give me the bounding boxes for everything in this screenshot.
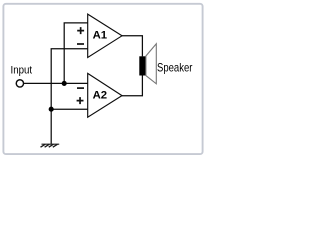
speaker cone [146, 44, 156, 84]
op-amp A1 (triangle) [88, 14, 122, 57]
ground [41, 144, 60, 147]
junction dot: ground rail to A2 non-inverting branch [49, 107, 54, 112]
svg-text:Input: Input [11, 64, 33, 76]
junction dot: input rail to A1 branch [62, 81, 67, 86]
wire: A2 non-inverting input from ground rail [51, 108, 87, 110]
A2 pin label - (inverting input) [77, 87, 84, 89]
A1 pin label + (non-inverting input) [77, 27, 84, 34]
svg-text:A2: A2 [93, 90, 108, 102]
wire: input rail from input terminal to A2 inverting input [24, 82, 88, 84]
wire: A2 output to speaker bottom [122, 76, 142, 96]
wire: branch up from input rail to A1 non-inverting input [64, 23, 87, 84]
A1 pin label - (inverting input) [77, 43, 84, 45]
wire: A1 output to speaker top [122, 36, 142, 57]
wire: A1 inverting input to ground rail (vertical down to ground) [51, 49, 87, 144]
svg-text:Speaker: Speaker [157, 60, 192, 74]
speaker driver (black rectangle) [139, 56, 146, 75]
svg-text:A1: A1 [93, 30, 108, 42]
border frame (decorative) [3, 4, 202, 154]
A2 pin label + (non-inverting input) [77, 97, 84, 104]
op-amp A2 (triangle) [88, 73, 122, 117]
input terminal (open circle) [16, 80, 23, 87]
